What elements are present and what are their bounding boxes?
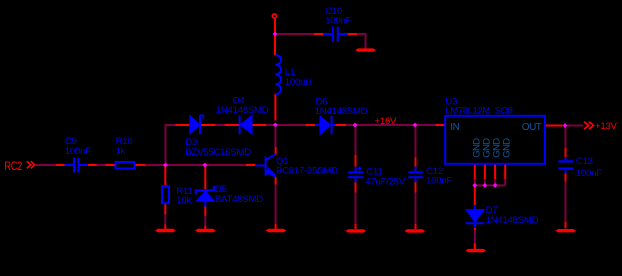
svg-text:100nF: 100nF (576, 168, 602, 179)
svg-text:GND: GND (501, 138, 512, 158)
svg-text:1N4148SMD: 1N4148SMD (216, 105, 269, 116)
svg-text:1N4148SMD: 1N4148SMD (315, 106, 368, 117)
svg-text:C13: C13 (576, 156, 593, 167)
svg-text:IN: IN (450, 122, 459, 133)
svg-text:BZV55C16SMD: BZV55C16SMD (185, 147, 251, 158)
svg-text:+16V: +16V (375, 116, 398, 127)
svg-text:BAT48SMD: BAT48SMD (215, 194, 263, 205)
svg-text:100nF: 100nF (65, 146, 91, 157)
svg-text:1N4148SMD: 1N4148SMD (486, 215, 539, 226)
svg-text:OUT: OUT (522, 122, 542, 133)
svg-text:LM78L12M_SO8: LM78L12M_SO8 (445, 106, 512, 117)
svg-text:100uH: 100uH (285, 77, 312, 88)
svg-text:47uF/25V: 47uF/25V (365, 176, 405, 187)
svg-text:10k: 10k (176, 195, 191, 206)
svg-text:1k: 1k (116, 146, 126, 157)
svg-text:100nF: 100nF (426, 175, 452, 186)
svg-text:+13V: +13V (595, 121, 618, 132)
svg-text:100nF: 100nF (325, 16, 351, 27)
svg-text:BC817-25SMD: BC817-25SMD (276, 166, 338, 177)
svg-text:RC2: RC2 (4, 160, 22, 173)
